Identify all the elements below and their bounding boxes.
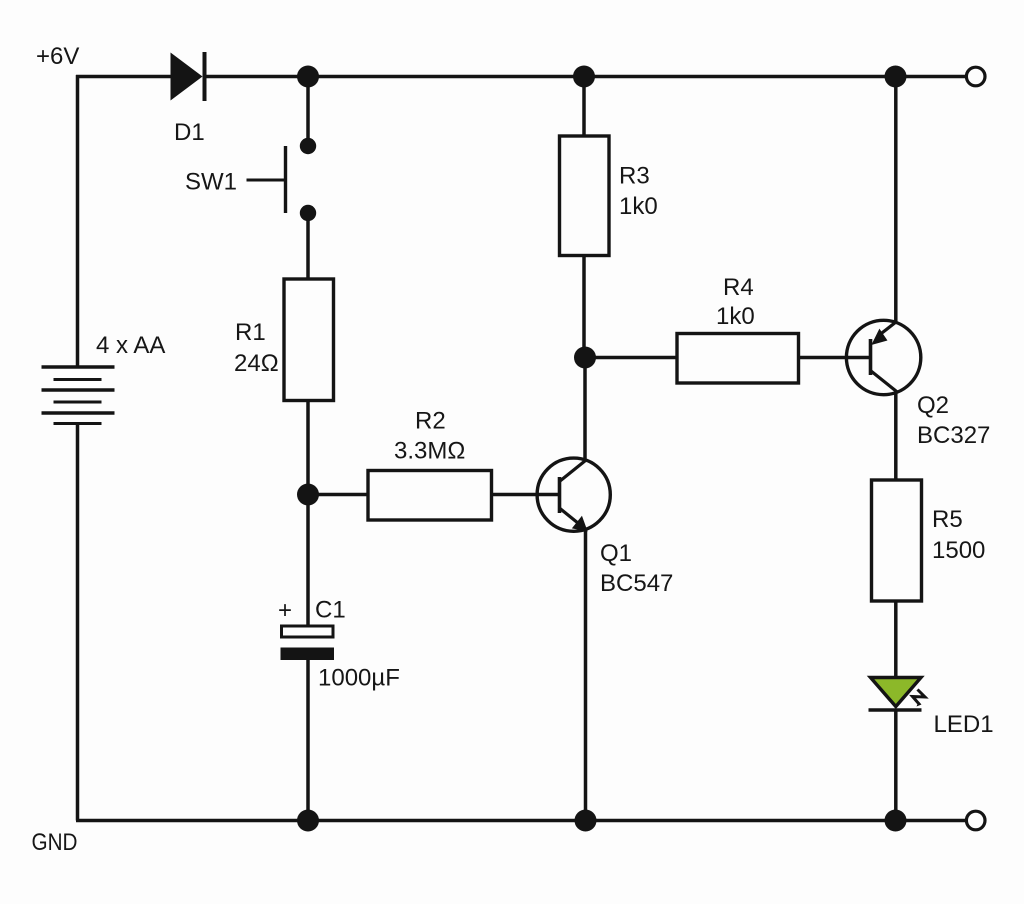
svg-text:LED1: LED1 bbox=[934, 711, 994, 738]
svg-text:3.3MΩ: 3.3MΩ bbox=[394, 438, 465, 465]
wire node D to R2 bbox=[308, 493, 368, 497]
bottom rail junction dot LED branch bbox=[885, 810, 907, 832]
transistor Q1 bbox=[537, 458, 610, 531]
wire R2 to Q1 base bbox=[491, 493, 558, 497]
svg-text:1k0: 1k0 bbox=[619, 193, 658, 220]
wire top rail node C to terminal bbox=[896, 75, 968, 79]
wire C1 bottom to bottom rail bbox=[306, 659, 310, 821]
wire SW1 bottom contact to R1 bbox=[306, 213, 310, 279]
svg-text:Q1: Q1 bbox=[600, 540, 632, 567]
svg-text:1000µF: 1000µF bbox=[318, 665, 400, 692]
wire R3 to node E bbox=[582, 255, 586, 358]
svg-text:SW1: SW1 bbox=[185, 169, 237, 196]
svg-text:C1: C1 bbox=[315, 597, 346, 624]
svg-text:4 x AA: 4 x AA bbox=[96, 332, 165, 359]
svg-text:R4: R4 bbox=[723, 274, 754, 301]
wire node A to SW1 top contact bbox=[306, 77, 310, 147]
wire node D to C1 top bbox=[306, 495, 310, 627]
svg-text:R3: R3 bbox=[619, 163, 650, 190]
node C junction dot bbox=[885, 66, 907, 88]
svg-text:BC547: BC547 bbox=[600, 570, 673, 597]
wire node B down to R3 bbox=[582, 77, 586, 137]
wire bottom rail to bottom terminal bbox=[896, 819, 968, 823]
capacitor C1 bbox=[281, 626, 335, 660]
battery 4 x AA bbox=[42, 367, 115, 424]
terminal top right bbox=[966, 67, 985, 86]
bottom rail junction dot Q1 branch bbox=[575, 810, 597, 832]
wire Q2 collector down to R5 bbox=[894, 390, 898, 480]
svg-text:D1: D1 bbox=[174, 119, 205, 146]
wire Q1 emitter down to bottom rail bbox=[584, 529, 588, 821]
wire bottom rail C1 branch to Q1 emitter branch bbox=[308, 819, 586, 823]
terminal bottom right bbox=[966, 811, 985, 830]
diode D1 bbox=[171, 52, 205, 101]
svg-text:R5: R5 bbox=[932, 506, 963, 533]
node A junction dot bbox=[297, 66, 319, 88]
resistor R3 bbox=[560, 136, 610, 256]
node B junction dot bbox=[573, 66, 595, 88]
svg-text:GND: GND bbox=[32, 829, 78, 856]
switch SW1 bbox=[247, 138, 317, 221]
bottom rail junction dot C1 branch bbox=[297, 810, 319, 832]
node E junction dot bbox=[574, 347, 596, 369]
wire node E to R4 bbox=[585, 356, 677, 360]
resistor R2 bbox=[368, 471, 492, 521]
wire R4 to Q2 base bbox=[798, 356, 869, 360]
wire R5 to LED1 anode bbox=[894, 601, 898, 678]
wire top rail node B to node C bbox=[584, 75, 896, 79]
resistor R4 bbox=[677, 334, 799, 384]
wire battery bottom to bottom rail bbox=[76, 423, 80, 821]
wire top rail diode to node A bbox=[205, 75, 308, 79]
svg-text:R2: R2 bbox=[415, 408, 446, 435]
svg-text:24Ω: 24Ω bbox=[234, 350, 279, 377]
transistor Q2 bbox=[846, 320, 920, 394]
svg-text:+: + bbox=[278, 597, 292, 624]
wire LED1 cathode to bottom rail bbox=[894, 710, 898, 821]
LED LED1 bbox=[869, 678, 926, 711]
svg-text:1k0: 1k0 bbox=[716, 303, 755, 330]
svg-text:1500: 1500 bbox=[932, 537, 985, 564]
svg-text:R1: R1 bbox=[235, 319, 266, 346]
wire left rail top (+6V corner down to battery) bbox=[76, 75, 80, 367]
wire bottom rail Q1 branch to LED branch bbox=[586, 819, 896, 823]
wire node C down to Q2 emitter bbox=[894, 77, 898, 324]
wire node E down to Q1 collector bbox=[583, 358, 587, 461]
resistor R5 bbox=[872, 480, 922, 601]
wire R1 to node D bbox=[306, 400, 310, 495]
svg-text:+6V: +6V bbox=[36, 43, 79, 70]
node D junction dot bbox=[297, 484, 319, 506]
wire top rail from corner to diode bbox=[76, 75, 172, 79]
wire top rail node A to node B bbox=[308, 75, 584, 79]
svg-text:Q2: Q2 bbox=[917, 392, 949, 419]
svg-text:BC327: BC327 bbox=[917, 422, 990, 449]
wire bottom rail left to C1 branch bbox=[76, 819, 308, 823]
resistor R1 bbox=[284, 279, 334, 401]
